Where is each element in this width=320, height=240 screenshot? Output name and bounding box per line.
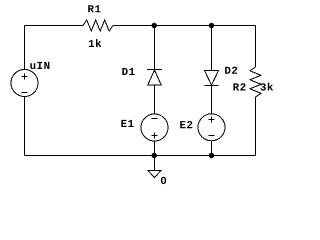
R2 value label 3k [260, 83, 273, 91]
ground symbol triangle (net 0) [148, 171, 161, 178]
junction dot node N1 (top of D1 branch) [152, 23, 157, 28]
ground net label 0 [161, 177, 166, 184]
wire: right rail, top-right corner down to R2 top lead [255, 26, 257, 68]
wire: E1 bottom terminal down to ground node on bottom rail [154, 141, 156, 156]
R1 name label [88, 5, 100, 12]
D1 name label [122, 68, 134, 75]
wire: bottom rail, E2 bottom node to bottom-right corner [212, 155, 256, 157]
wire: top rail, segment from R1 right lead to node N1 [113, 25, 155, 27]
wire: node N2 down to D2 anode [211, 26, 213, 71]
wire: top rail, segment from node N2 to top-right corner [212, 25, 256, 27]
wire: D2 cathode down to E2 top terminal [211, 86, 213, 115]
ground symbol stem [154, 156, 156, 171]
R1 value label 1k [89, 39, 101, 47]
junction dot (E2 bottom node) [209, 153, 214, 158]
resistor R2 (vertical) [250, 67, 261, 97]
voltage source uIN (plus top, minus bottom) [11, 70, 38, 97]
wire: right rail, R2 bottom lead down to bottom-right corner [255, 97, 257, 156]
wire: E2 bottom terminal down to bottom rail [211, 141, 213, 156]
junction dot node N2 (top of D2 branch) [209, 23, 214, 28]
wire: node N1 down to D1 cathode bar [154, 26, 156, 70]
wire: left rail, top-left corner down to uIN plus terminal [24, 26, 26, 70]
E1 name label [121, 120, 133, 127]
wire: top rail, left segment (top-left corner to R1 left lead) [25, 25, 84, 27]
uIN name label [30, 62, 49, 69]
resistor R1 [83, 20, 113, 31]
wire: bottom rail, ground node to E2 bottom node [155, 155, 212, 157]
voltage source E1 (minus top, plus bottom) [141, 114, 168, 141]
wire: D1 anode down to E1 top terminal [154, 85, 156, 114]
diode D1 (cathode bar on top, triangle pointing up) [147, 70, 162, 86]
R2 name label [233, 83, 245, 90]
voltage source E2 (plus top, minus bottom) [198, 114, 225, 141]
wire: top rail, segment from node N1 to node N2 [155, 25, 212, 27]
junction dot (E1 bottom / ground node) [152, 153, 157, 158]
D2 name label [225, 67, 237, 74]
wire: bottom rail, bottom-left corner to ground node [25, 155, 155, 157]
E2 name label [180, 121, 192, 128]
diode D2 (triangle pointing down, cathode bar at bottom) [205, 71, 219, 86]
wire: left rail, uIN minus terminal down to bottom-left corner [24, 97, 26, 156]
